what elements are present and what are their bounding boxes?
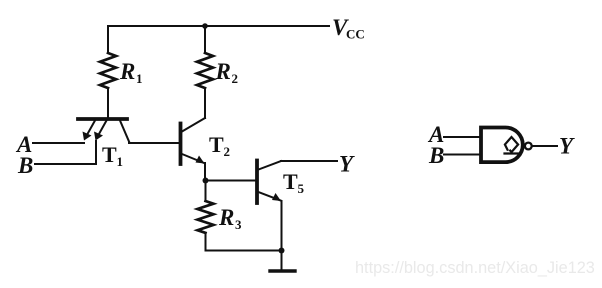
- wire input A: [33, 142, 84, 144]
- svg-text:Y: Y: [339, 152, 355, 177]
- resistor R2: [197, 53, 213, 88]
- transistor T1 emitter 2: [97, 121, 107, 138]
- wire R2 branch top: [204, 26, 206, 53]
- wire output Y: [281, 160, 337, 162]
- svg-text:CC: CC: [346, 27, 365, 42]
- label R2: [215, 59, 239, 86]
- gate NAND inversion bubble: [525, 143, 532, 150]
- gate NAND AND-symbol diamond: [505, 137, 518, 152]
- label R3: [218, 205, 242, 232]
- label T1: [102, 142, 123, 169]
- label R1: [119, 59, 143, 86]
- transistor Q T5 base bar: [255, 161, 259, 204]
- label Vcc: [332, 15, 365, 42]
- svg-text:R: R: [119, 59, 135, 84]
- svg-text:5: 5: [298, 181, 305, 196]
- node rail junction: [202, 23, 208, 29]
- wire node to R3: [205, 181, 207, 202]
- ground: [270, 269, 295, 272]
- gate NAND body: [481, 128, 523, 163]
- gate NAND input wire A: [444, 136, 481, 138]
- transistor T1 collector: [120, 121, 129, 142]
- svg-text:B: B: [17, 153, 33, 178]
- gate NAND AND-symbol underline: [505, 152, 520, 154]
- label T5: [283, 169, 305, 196]
- wire Vcc rail: [108, 25, 329, 27]
- wire R1 to T1 base: [107, 88, 109, 117]
- svg-text:R: R: [215, 59, 231, 84]
- svg-text:T: T: [209, 132, 224, 157]
- wire input B: [35, 141, 96, 164]
- wire T5 emitter down: [281, 201, 283, 251]
- transistor T2 emitter: [182, 154, 204, 163]
- svg-text:R: R: [218, 205, 234, 230]
- wire to ground: [281, 251, 283, 271]
- node bottom junction: [279, 248, 285, 254]
- resistor R1: [100, 53, 116, 88]
- transistor Q T1 base bar: [78, 117, 127, 121]
- svg-text:2: 2: [232, 71, 239, 86]
- transistor T1 emitter 1: [86, 121, 96, 138]
- resistor R3: [198, 201, 214, 233]
- wire R3 to bottom rail: [206, 233, 282, 251]
- wire T2 emitter down: [204, 163, 206, 180]
- transistor Q T2 base bar: [179, 124, 183, 165]
- svg-text:3: 3: [235, 217, 242, 232]
- label T2: [209, 132, 230, 159]
- transistor T2 collector: [182, 118, 205, 132]
- wire R1 branch top: [107, 26, 109, 53]
- svg-text:B: B: [428, 143, 444, 168]
- svg-text:1: 1: [117, 154, 124, 169]
- transistor T5 collector: [259, 161, 282, 170]
- svg-text:Y: Y: [559, 134, 575, 159]
- svg-text:T: T: [102, 142, 117, 167]
- wire T1 collector to T2 base: [129, 142, 180, 144]
- svg-text:T: T: [283, 169, 298, 194]
- wire R2 to T2 collector: [204, 88, 206, 118]
- svg-text:1: 1: [136, 71, 143, 86]
- transistor T5 emitter: [259, 192, 281, 201]
- gate NAND input wire B: [444, 154, 481, 156]
- wire node to T5 base: [206, 180, 256, 182]
- svg-text:https://blog.csdn.net/Xiao_Jie: https://blog.csdn.net/Xiao_Jie123: [355, 259, 595, 277]
- gate NAND output wire: [533, 145, 558, 147]
- svg-text:2: 2: [224, 144, 231, 159]
- node emitter junction: [203, 178, 209, 184]
